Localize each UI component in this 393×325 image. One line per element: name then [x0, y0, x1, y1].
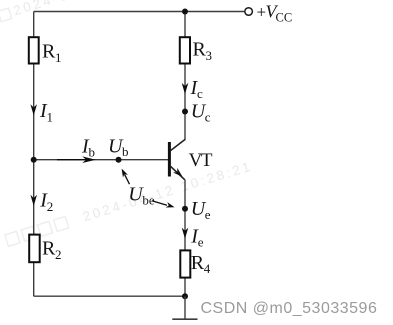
svg-text:2: 2 [47, 199, 54, 214]
node dot bottom junction [182, 293, 188, 299]
label Ic [190, 77, 204, 101]
arrow from Ube to Ue node [152, 201, 175, 208]
wire base horizontal [34, 159, 168, 161]
arrow I2 [30, 195, 37, 206]
watermark tile top-left [0, 0, 185, 23]
label Ube with pointer arrows [128, 184, 155, 208]
node Uc dot [182, 109, 188, 115]
resistor R3 [180, 37, 190, 63]
label R4 [191, 252, 211, 276]
node dot top (Vcc/R3) [182, 9, 188, 15]
svg-text:CC: CC [276, 10, 293, 24]
resistor R2 [29, 235, 40, 263]
wire R4 to bottom junction [184, 278, 186, 297]
node Ub dot [116, 157, 122, 163]
label Uc [191, 100, 211, 124]
arrow I1 (current down left wire) [30, 104, 37, 115]
svg-text:c: c [197, 86, 203, 101]
label R2 [42, 238, 62, 262]
svg-text:VT: VT [189, 150, 213, 171]
base bar [168, 142, 171, 177]
label I2 [39, 190, 53, 215]
svg-text:R: R [42, 41, 56, 63]
resistor R4 [180, 250, 190, 277]
svg-text:3: 3 [206, 48, 213, 63]
svg-text:R: R [191, 252, 205, 274]
svg-text:e: e [205, 207, 211, 222]
collector diagonal [171, 139, 186, 150]
label I1 [39, 100, 53, 125]
emitter arrowhead [173, 168, 183, 177]
node dot base-left junction [31, 157, 37, 163]
arrow Ie [182, 228, 189, 239]
terminal +Vcc circle [245, 8, 253, 16]
wire bottom horizontal [34, 295, 185, 297]
node Ue dot [182, 206, 188, 212]
svg-text:CSDN @m0_53033596: CSDN @m0_53033596 [201, 300, 378, 317]
label +Vcc [257, 1, 293, 24]
watermark tile center [4, 158, 254, 247]
transistor VT [168, 139, 185, 179]
label Ib [81, 136, 95, 160]
svg-text:1: 1 [47, 110, 54, 125]
wire top horizontal [34, 11, 245, 13]
label R1 [42, 41, 62, 65]
svg-text:1: 1 [55, 50, 62, 65]
svg-text:b: b [122, 144, 129, 159]
svg-text:e: e [198, 235, 204, 250]
ground stem [184, 296, 186, 319]
arrow Ic [182, 83, 189, 94]
label Ub [108, 135, 129, 159]
arrow Ib (on base wire, pointing right) [57, 156, 96, 163]
arrow from Ube to Ub node [122, 169, 130, 185]
wire R3 bottom to collector [184, 63, 186, 139]
label R3 [193, 39, 213, 63]
svg-text:R: R [193, 39, 207, 61]
resistor R1 [29, 37, 39, 63]
wire left vertical [33, 12, 35, 297]
svg-text:2: 2 [55, 247, 62, 262]
label Ie [190, 226, 204, 250]
emitter diagonal [171, 166, 185, 179]
wire Vcc node to R3 top [184, 12, 186, 38]
svg-text:4: 4 [204, 261, 211, 276]
svg-text:c: c [205, 109, 211, 124]
ground bar [172, 318, 197, 320]
label Ue [191, 198, 211, 222]
svg-text:R: R [42, 238, 56, 260]
svg-text:be: be [142, 192, 155, 207]
svg-text:b: b [89, 144, 96, 159]
wire emitter vertical to R4 [184, 180, 186, 251]
